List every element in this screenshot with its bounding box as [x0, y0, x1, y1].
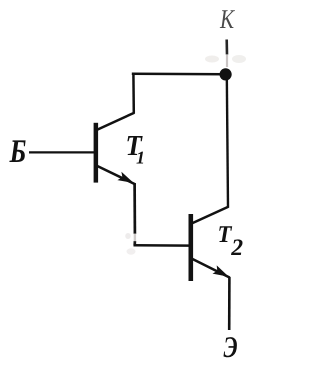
transistor T1: base bar	[94, 123, 99, 183]
transistor T2: emitter diagonal lead with arrow	[191, 258, 230, 277]
wire: base lead from Б to T1	[29, 151, 94, 153]
junction dot: collector node	[220, 68, 232, 80]
transistor T1: collector diagonal lead	[96, 113, 135, 131]
wire: collector vertical from junction down to T2	[227, 75, 228, 208]
wire: top horizontal from T1 collector riser to junction	[132, 72, 225, 75]
terminal label Б (base)	[9, 140, 25, 162]
label T2	[219, 226, 232, 242]
terminal label К (collector)	[220, 10, 235, 28]
wire: T1 collector vertical riser	[132, 73, 135, 114]
terminal label Э (emitter)	[224, 337, 237, 357]
wire: T1 emitter down to T2 base (with faded section)	[125, 183, 135, 255]
wire: faded lead from К down to junction	[205, 40, 246, 68]
wire: T2 base horizontal	[134, 244, 190, 247]
wire: T2 emitter vertical down to Э	[228, 277, 231, 330]
label T1	[127, 136, 142, 155]
transistor T1: emitter diagonal lead with arrow	[96, 165, 135, 184]
transistor T2: base bar	[189, 214, 194, 281]
transistor T2: collector diagonal lead	[191, 207, 229, 224]
